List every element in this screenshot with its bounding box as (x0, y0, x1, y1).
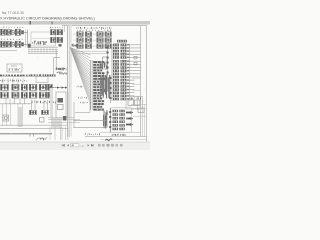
toolbar top line (0, 141, 150, 143)
rh wire h y112 (75, 112, 90, 114)
label box mid (36, 77, 48, 83)
toolbar background (0, 142, 150, 150)
valve group C2 (57, 30, 63, 35)
valve bank right vline (129, 44, 131, 99)
tall box mid (56, 92, 66, 118)
fold shadow band (69, 26, 72, 137)
subcircuit box 2 (135, 100, 141, 106)
right-top bank wires (73, 34, 112, 46)
control box internals (32, 40, 46, 45)
bus row chain 2 (31, 74, 56, 76)
caption text MA/B (36, 137, 47, 140)
pump cluster under divider (56, 68, 67, 71)
lattice ticks (29, 47, 56, 54)
under-bank hline 2 (75, 52, 108, 54)
mid dark cluster x64 (63, 116, 66, 121)
valve bank top cluster (117, 40, 127, 43)
bus row chain (0, 75, 30, 77)
valve group C4 (57, 37, 63, 42)
valve group C1 (51, 30, 57, 35)
pump row A (1, 29, 6, 35)
junction line B (109, 75, 111, 103)
tank symbols (9, 68, 20, 70)
svg-text:X HYDRAULIC CIRCUIT DIAGRAM(LO: X HYDRAULIC CIRCUIT DIAGRAM(LOADING SHOV… (0, 16, 95, 20)
rh wire h y120 (73, 119, 107, 121)
check valves (57, 86, 67, 88)
right strip hline 3 (133, 115, 147, 117)
right top specks 2 (77, 29, 111, 31)
lower left specks (103, 110, 108, 128)
C side speck (59, 44, 62, 47)
signature squiggle (106, 139, 113, 141)
tank label (11, 65, 17, 66)
svg-text:Na. T7-02-E-30: Na. T7-02-E-30 (2, 11, 24, 15)
subcircuit box 1 (128, 100, 134, 106)
lower valve bank (113, 110, 134, 131)
bottom dark line (0, 133, 52, 135)
fan foot specks (78, 97, 87, 99)
scan noise film (0, 28, 147, 140)
bus hline (0, 75, 56, 77)
mid column box 2 (103, 64, 108, 69)
pump cluster under divider 2 (57, 72, 67, 75)
pilot line fan (70, 48, 90, 104)
gauge circle (4, 116, 7, 119)
actuator row 1 (1, 84, 53, 90)
bus vticks (3, 78, 23, 83)
fold divider line (67, 26, 69, 137)
bottom tick 1 (29, 134, 31, 137)
pump row B (1, 41, 6, 47)
control box outline (31, 32, 56, 46)
bottom tick 2 (33, 134, 35, 137)
tall box inner 2 (58, 105, 64, 110)
separator band mark 2 (52, 21, 53, 24)
valve bank left wire (111, 44, 113, 101)
valve group C3 (51, 37, 57, 42)
junction specks (100, 62, 107, 69)
L wire vertical (55, 50, 57, 70)
fold divider line 2 (68, 26, 70, 137)
rh wire v x74 (73, 102, 75, 128)
junction line A (107, 45, 109, 75)
valve pair A (30, 110, 37, 114)
L wire vertical 2 (53, 58, 55, 76)
mid hline y119.5 (48, 119, 80, 121)
gray band x50 (50, 88, 53, 120)
header title line 2 (0, 16, 95, 20)
diagram top border (62, 25, 147, 27)
label col specks (100, 74, 110, 99)
rh bottom line 2 (100, 138, 147, 140)
fan foot specks 2 (80, 102, 88, 104)
main valve bank right (113, 44, 141, 101)
small box low (40, 118, 45, 123)
pump blob right (28, 44, 31, 48)
drop wires 2 (3, 104, 23, 126)
gray band mid-lower (51, 118, 62, 128)
pilot bus vline2 (92, 60, 94, 110)
text row y80 (0, 80, 27, 82)
small box right edge (138, 108, 144, 113)
rh bottom specks (112, 134, 126, 136)
check valve line (50, 87, 67, 89)
right strip vline 2 (144, 104, 146, 137)
right inner border (140, 26, 142, 137)
scan lightening film (0, 25, 150, 142)
left stub line (0, 49, 17, 51)
page background (0, 0, 150, 150)
under-bank hline 1 (75, 50, 108, 52)
mid column box 1 (103, 57, 108, 62)
lower bank nodes (109, 111, 111, 128)
pump row B labels (1, 39, 22, 40)
rh wire v x90 (89, 102, 91, 113)
pilot bus vline (90, 60, 92, 110)
valve group C top specks (50, 27, 62, 28)
separator band mark 1 (30, 21, 31, 25)
header title line 1 (2, 11, 24, 15)
right outer border (146, 26, 148, 142)
box lines right (67, 92, 69, 118)
drop wires (6, 99, 25, 105)
pump row A riser (27, 30, 29, 48)
inline box 2 (134, 62, 137, 65)
L wire horiz (54, 57, 60, 59)
fan labels (76, 86, 83, 88)
subcircuit outline (126, 97, 143, 110)
header separator band (0, 21, 150, 25)
pump row A labels (1, 27, 23, 28)
tall box inner 1 (58, 98, 64, 103)
subcircuit vline (136, 97, 138, 111)
lattice lines (28, 48, 58, 54)
actuator row 2 (1, 92, 53, 98)
pilot bus clusters (93, 61, 105, 111)
rh bottom specks 2 (85, 133, 100, 135)
toolbar controls (62, 144, 123, 148)
bottom rail 2 (0, 128, 68, 130)
right strip hline 1 (131, 104, 147, 106)
gray band left-lower (18, 107, 23, 127)
lower bank left wire (109, 108, 111, 132)
rh wire h y127 (73, 126, 107, 128)
valve pair B (42, 110, 49, 114)
cross hline y103 (0, 103, 31, 105)
comp drop wires (32, 100, 48, 111)
rh bottom hline y132 (100, 131, 141, 133)
bank-to-border wires (132, 78, 141, 96)
gauge box (3, 115, 9, 121)
rh bottom line 1 (85, 136, 147, 138)
control box internal line (32, 38, 54, 40)
right strip hline 2 (131, 107, 147, 109)
C riser vline (63, 26, 65, 32)
right top specks (76, 27, 111, 29)
pump row A riser 2 (25, 30, 27, 48)
lower bank outline (111, 108, 132, 133)
right-top valve bank (77, 32, 112, 49)
inline box 1 (134, 56, 137, 59)
mid hline y122.5 (48, 122, 80, 124)
tank box (7, 64, 22, 72)
right strip vline 1 (141, 100, 143, 137)
subcircuit specks (127, 97, 141, 99)
hline y117.5 (48, 117, 74, 119)
fan top cluster (72, 44, 78, 47)
bottom rail 1 (0, 124, 68, 126)
comp tops specks (32, 101, 56, 104)
bottom drop wires (50, 127, 68, 140)
